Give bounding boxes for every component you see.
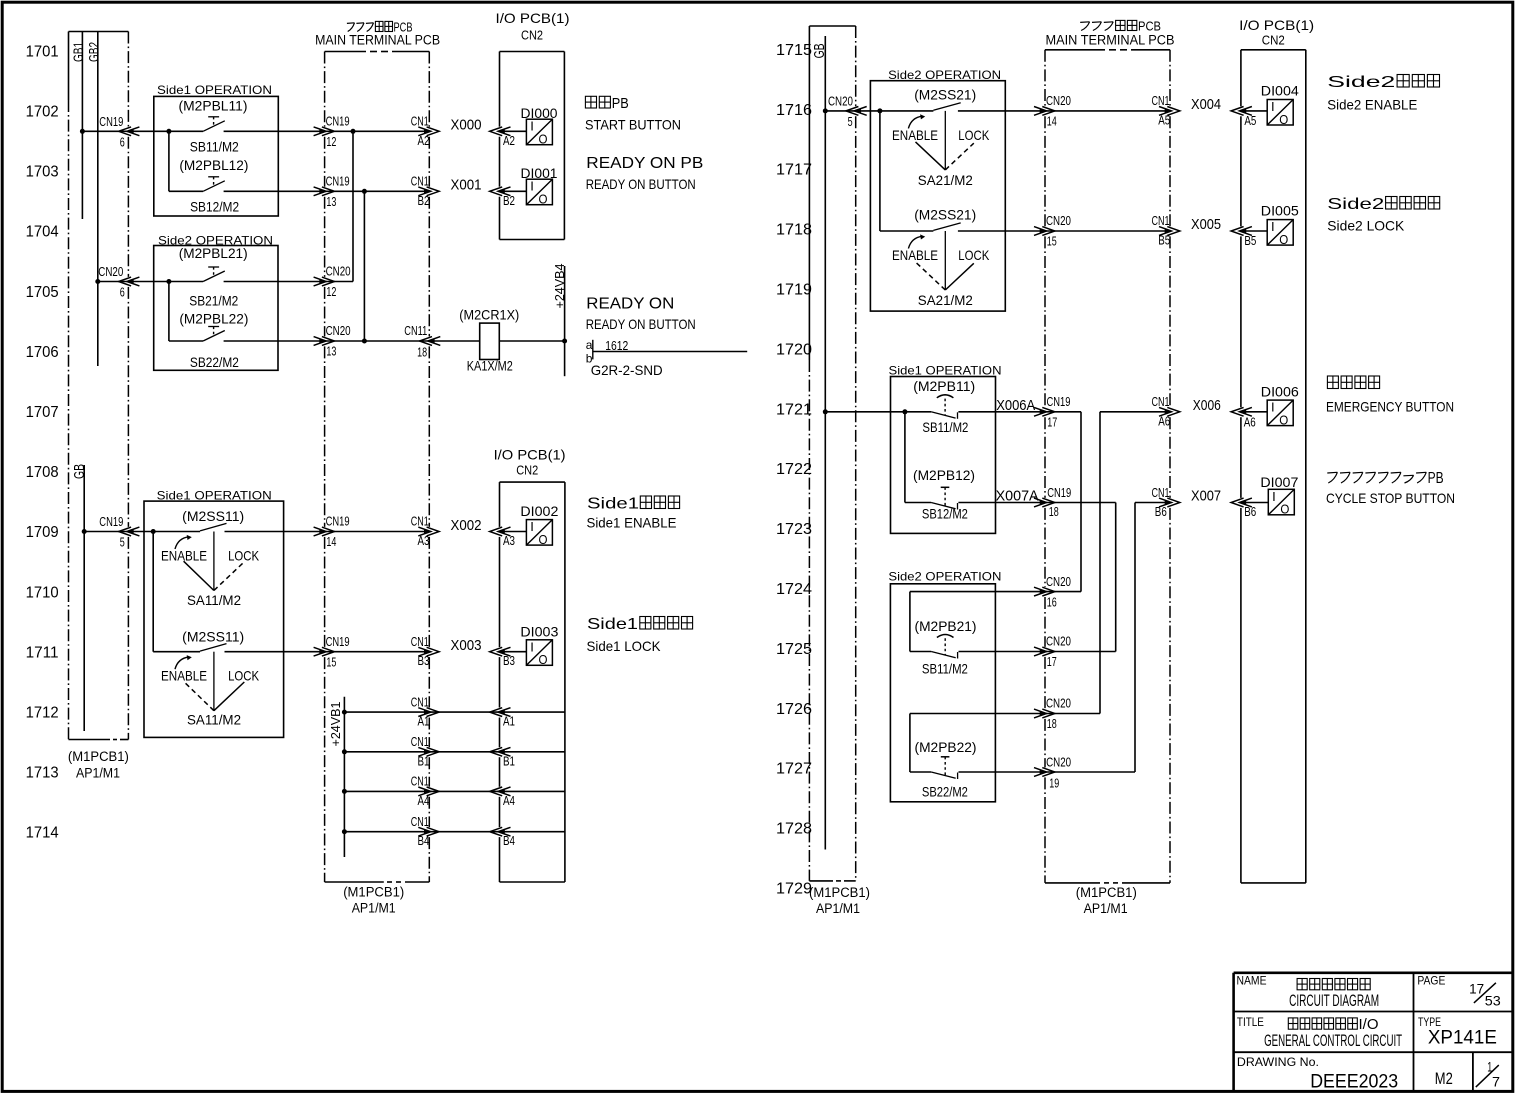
connector CN2 pin A4 (I/O edge)	[498, 787, 511, 796]
svg-text:DI005: DI005	[1261, 203, 1299, 219]
svg-text:(M1PCB1): (M1PCB1)	[68, 749, 129, 764]
svg-text:1729: 1729	[776, 881, 812, 898]
wire A1 inside I/O pcb	[504, 711, 565, 713]
svg-text:5: 5	[848, 114, 853, 129]
svg-text:AP1/M1: AP1/M1	[76, 765, 120, 780]
MAIN TERMINAL PCB box (left)	[325, 51, 366, 53]
svg-text:(M2PBL11): (M2PBL11)	[179, 98, 248, 114]
I/O PCB(1) CN2 box upper	[500, 51, 565, 53]
label メイン中継PCB	[347, 23, 355, 32]
wire row 1709 GB to selector	[84, 531, 200, 533]
svg-text:1720: 1720	[776, 341, 812, 358]
svg-text:TITLE: TITLE	[1237, 1015, 1264, 1029]
svg-text:GENERAL CONTROL CIRCUIT: GENERAL CONTROL CIRCUIT	[1264, 1031, 1402, 1050]
svg-text:Side2: Side2	[1327, 196, 1384, 213]
svg-text:Side1 ENABLE: Side1 ENABLE	[587, 515, 677, 531]
svg-text:14: 14	[326, 534, 336, 549]
svg-text:1703: 1703	[26, 164, 59, 181]
svg-text:CN1: CN1	[411, 114, 429, 129]
connector CN1 pin B1	[418, 747, 431, 756]
svg-text:B6: B6	[1244, 504, 1256, 519]
connector CN1 pin B4	[418, 827, 431, 836]
svg-text:M2: M2	[1435, 1069, 1453, 1088]
svg-text:I/O PCB(1): I/O PCB(1)	[496, 10, 570, 26]
connector CN19 pin 6 (left PCB edge)	[127, 127, 139, 136]
svg-text:1707: 1707	[26, 404, 59, 421]
svg-text:(M1PCB1): (M1PCB1)	[809, 885, 870, 900]
svg-text:I/O PCB(1): I/O PCB(1)	[494, 447, 566, 463]
svg-text:CN19: CN19	[1047, 485, 1071, 500]
svg-text:1715: 1715	[776, 42, 812, 59]
svg-text:A4: A4	[418, 793, 430, 808]
svg-text:Side1: Side1	[587, 616, 638, 633]
svg-text:CN20: CN20	[326, 323, 351, 338]
svg-text:1705: 1705	[26, 284, 59, 301]
svg-text:CN1: CN1	[411, 174, 429, 189]
svg-text:1704: 1704	[26, 224, 59, 241]
connector CN19 pin 14	[314, 527, 327, 536]
svg-text:CN19: CN19	[326, 114, 350, 129]
svg-text:A3: A3	[418, 533, 430, 548]
svg-text:SB22/M2: SB22/M2	[190, 354, 239, 370]
bus wire 12 vertical	[352, 131, 354, 281]
svg-text:(M2SS21): (M2SS21)	[914, 207, 976, 223]
wire selector to CN20-14	[958, 110, 1045, 112]
wire row 1725 left segment	[910, 651, 931, 653]
wire B4 inside I/O pcb	[504, 831, 565, 833]
svg-text:GB1: GB1	[70, 42, 86, 62]
wire row 1702 GB1 to switch SB11	[82, 130, 203, 132]
svg-text:1710: 1710	[26, 584, 59, 601]
svg-text:DI002: DI002	[520, 503, 558, 519]
svg-text:B3: B3	[503, 653, 515, 668]
connector CN1 pin A3	[418, 527, 431, 536]
svg-text:1723: 1723	[776, 521, 812, 538]
svg-text:19: 19	[1049, 776, 1059, 791]
svg-text:+24VB4: +24VB4	[552, 264, 567, 309]
svg-text:A2: A2	[418, 133, 430, 148]
svg-text:O: O	[1280, 502, 1289, 517]
svg-text:CN20: CN20	[828, 93, 853, 108]
wire row 1702 inside terminal box	[325, 130, 430, 132]
connector CN1 pin A2	[418, 127, 431, 136]
svg-text:DI007: DI007	[1260, 474, 1298, 490]
svg-text:GB: GB	[71, 464, 88, 479]
connector CN11 pin 18	[428, 337, 441, 346]
svg-text:A6: A6	[1244, 414, 1256, 429]
Side2 OPERATION pushbutton box right	[890, 584, 995, 802]
connector CN2 pin A6 (I/O edge)	[1239, 407, 1252, 416]
svg-text:15: 15	[1047, 234, 1057, 249]
svg-text:1724: 1724	[776, 581, 812, 598]
connector CN20 pin 15	[1034, 227, 1047, 236]
svg-text:CIRCUIT DIAGRAM: CIRCUIT DIAGRAM	[1289, 991, 1379, 1010]
svg-text:CN1: CN1	[411, 634, 429, 649]
svg-text:CN19: CN19	[1047, 394, 1071, 409]
svg-text:CN19: CN19	[326, 634, 350, 649]
title 総合制御回路I/O	[1288, 1018, 1298, 1029]
svg-text:READY ON PB: READY ON PB	[586, 155, 703, 172]
svg-text:SA11/M2: SA11/M2	[187, 592, 241, 608]
svg-text:CN20: CN20	[326, 264, 351, 279]
svg-text:1722: 1722	[776, 461, 812, 478]
wire selector to CN20-15	[958, 230, 1045, 232]
wire bus v3 to CN1 A6	[1100, 411, 1170, 413]
connector CN20 pin 19	[1034, 768, 1047, 777]
svg-text:I: I	[1272, 489, 1276, 504]
svg-text:Side1 LOCK: Side1 LOCK	[587, 638, 662, 654]
svg-text:B1: B1	[418, 753, 430, 768]
title 電気回路線図	[1297, 979, 1307, 990]
connector CN20 pin 5	[854, 107, 867, 116]
svg-text:18: 18	[1049, 504, 1059, 519]
wire CN1 B4 to I/O	[429, 831, 499, 833]
svg-text:6: 6	[120, 134, 125, 149]
svg-text:CN2: CN2	[521, 28, 543, 43]
bus GB2 vertical wire	[97, 32, 99, 367]
wire branch selector 1716 to 1718	[879, 111, 881, 231]
wire +24VB1 to CN1 B4	[344, 831, 429, 833]
wire branch SB11 to SB12	[168, 131, 170, 191]
svg-text:CYCLE STOP BUTTON: CYCLE STOP BUTTON	[1326, 490, 1455, 506]
wire row 1703 inside terminal box	[325, 190, 430, 192]
svg-text:GB2: GB2	[85, 42, 101, 62]
wire CN1 A1 to I/O	[429, 711, 499, 713]
Side1 OPERATION box upper	[154, 96, 278, 216]
svg-text:CN1: CN1	[1152, 394, 1170, 409]
svg-text:1716: 1716	[776, 102, 812, 119]
connector CN2 pin A3 (I/O edge)	[498, 527, 511, 536]
svg-text:KA1X/M2: KA1X/M2	[467, 358, 513, 374]
svg-text:13: 13	[326, 194, 336, 209]
svg-text:CN11: CN11	[404, 323, 427, 338]
svg-text:17: 17	[1047, 654, 1057, 669]
bus wire 13 vertical	[363, 191, 365, 341]
svg-text:1719: 1719	[776, 282, 812, 299]
node +24VB1 junction B4	[342, 829, 347, 834]
svg-text:LOCK: LOCK	[958, 247, 990, 263]
svg-text:1701: 1701	[26, 43, 59, 60]
wire branch SB11 to SB12 right	[904, 412, 906, 503]
relay coil KA1X/M2 (M2CR1X)	[480, 323, 500, 359]
pushbutton SB22/M2 (M2PBL22)	[208, 326, 219, 328]
wire branch down to SB11 (M2PB21)	[909, 592, 911, 652]
text 非常停止	[1327, 376, 1338, 389]
svg-text:X004: X004	[1191, 96, 1221, 113]
svg-text:CN20: CN20	[1046, 634, 1071, 649]
svg-text:AP1/M1: AP1/M1	[1084, 901, 1128, 916]
svg-text:(M1PCB1): (M1PCB1)	[343, 885, 404, 900]
connector CN20 pin 6	[127, 277, 139, 286]
svg-text:1702: 1702	[26, 104, 59, 121]
svg-text:Side2 ENABLE: Side2 ENABLE	[1327, 97, 1417, 113]
svg-text:AP1/M1: AP1/M1	[816, 901, 860, 916]
node junction bus 12	[351, 129, 356, 134]
svg-text:(M2PB21): (M2PB21)	[915, 618, 977, 634]
svg-text:SB21/M2: SB21/M2	[189, 293, 238, 309]
node GB junction row 1716	[823, 108, 828, 113]
connector CN2 pin A2 (I/O edge)	[498, 127, 511, 136]
I/O PCB(1) CN2 box lower	[500, 481, 565, 483]
svg-text:1718: 1718	[776, 222, 812, 239]
svg-text:DI003: DI003	[520, 623, 558, 639]
svg-text:1714: 1714	[26, 825, 59, 842]
svg-text:SA21/M2: SA21/M2	[918, 292, 973, 308]
svg-text:LOCK: LOCK	[228, 547, 260, 563]
wire CN19-17 to bus v1	[1045, 411, 1081, 413]
svg-text:Side1 OPERATION: Side1 OPERATION	[157, 489, 272, 503]
connector CN19 pin 12	[314, 127, 327, 136]
svg-text:1708: 1708	[26, 464, 59, 481]
wire CN11 to relay coil	[429, 340, 479, 342]
wire into DI004	[1245, 110, 1267, 112]
connector CN19 pin 15	[314, 647, 327, 656]
svg-text:I/O PCB(1): I/O PCB(1)	[1239, 17, 1314, 33]
svg-text:CN19: CN19	[99, 114, 123, 129]
wire into DI007	[1245, 502, 1268, 504]
svg-text:CN20: CN20	[1046, 93, 1071, 108]
wire into DI002	[504, 531, 526, 533]
svg-text:1727: 1727	[776, 761, 812, 778]
connector CN19 pin 13	[314, 187, 327, 196]
svg-text:5: 5	[120, 535, 125, 550]
Side2 OPERATION selector box right	[870, 81, 1005, 311]
wire row 1716 inside terminal box	[1045, 110, 1170, 112]
svg-text:O: O	[539, 652, 548, 667]
svg-text:CN1: CN1	[411, 514, 429, 529]
node junction bus 13 row 1706	[362, 339, 367, 344]
svg-text:PB: PB	[1428, 470, 1444, 487]
svg-text:Side2 OPERATION: Side2 OPERATION	[888, 68, 1001, 82]
svg-text:CN1: CN1	[411, 774, 429, 789]
svg-text:(M2SS11): (M2SS11)	[182, 629, 244, 645]
svg-text:READY ON: READY ON	[586, 296, 674, 313]
svg-text:CN1: CN1	[1152, 485, 1170, 500]
svg-text:1721: 1721	[776, 401, 812, 418]
svg-text:B1: B1	[503, 753, 515, 768]
pushbutton SB11/M2 (M2PBL11)	[208, 116, 219, 118]
svg-text:B3: B3	[418, 653, 430, 668]
svg-text:X007: X007	[1191, 487, 1221, 504]
svg-text:A2: A2	[503, 133, 515, 148]
svg-text:AP1/M1: AP1/M1	[352, 901, 396, 916]
connector CN1 pin A6	[1159, 407, 1172, 416]
I/O PCB(1) CN2 box right	[1241, 49, 1306, 51]
connector CN1 pin A5	[1159, 107, 1172, 116]
node GB2 junction row 1705	[95, 279, 100, 284]
svg-text:(M2CR1X): (M2CR1X)	[459, 307, 519, 323]
svg-text:DI006: DI006	[1261, 383, 1299, 399]
connector CN2 pin A5 (I/O edge)	[1239, 107, 1252, 116]
svg-text:12: 12	[326, 284, 336, 299]
svg-text:A5: A5	[1158, 112, 1170, 127]
MAIN TERMINAL PCB box (right)	[1045, 49, 1105, 51]
connector CN1 pin B2	[418, 187, 431, 196]
svg-text:B2: B2	[418, 193, 430, 208]
connector CN2 pin B2 (I/O edge)	[498, 187, 511, 196]
wire row 1727 left segment	[910, 771, 931, 773]
svg-text:CN1: CN1	[1152, 93, 1170, 108]
svg-text:GB: GB	[811, 43, 828, 58]
svg-text:O: O	[539, 192, 548, 207]
wire relay to +24VB4	[499, 340, 564, 342]
svg-text:ENABLE: ENABLE	[892, 247, 938, 263]
connector CN19 pin 17	[1034, 407, 1047, 416]
svg-text:14: 14	[1047, 114, 1057, 129]
svg-text:CN20: CN20	[1046, 754, 1071, 769]
node GB junction row 1721	[823, 409, 828, 414]
node branch junction in Side1 box	[166, 129, 171, 134]
wire into DI005	[1245, 230, 1267, 232]
svg-text:A5: A5	[1244, 113, 1256, 128]
svg-text:A6: A6	[1158, 413, 1170, 428]
connector CN1 pin B6	[1159, 498, 1172, 507]
wire row 1706 inside terminal box	[325, 340, 430, 342]
Side2 OPERATION box (left)	[154, 246, 278, 371]
connector CN1 pin A4	[418, 787, 431, 796]
svg-text:(M2PB22): (M2PB22)	[915, 739, 977, 755]
text サイクルストップPB	[1327, 472, 1337, 483]
svg-text:Side2: Side2	[1327, 74, 1395, 91]
connector CN20 pin 12	[314, 277, 327, 286]
svg-text:READY ON BUTTON: READY ON BUTTON	[586, 176, 696, 192]
svg-text:CN1: CN1	[411, 734, 429, 749]
svg-text:B2: B2	[503, 193, 515, 208]
svg-text:CN20: CN20	[1046, 696, 1071, 711]
svg-text:Side2 OPERATION: Side2 OPERATION	[888, 570, 1001, 584]
node junction bus 13	[362, 189, 367, 194]
svg-text:X003: X003	[451, 637, 482, 654]
svg-text:(M2PBL12): (M2PBL12)	[179, 157, 248, 173]
svg-text:6: 6	[120, 285, 125, 300]
connector CN20 pin 16	[1034, 587, 1047, 596]
connector CN20 pin 14	[1034, 107, 1047, 116]
svg-text:A1: A1	[503, 714, 515, 729]
svg-text:(M2SS21): (M2SS21)	[914, 87, 976, 103]
bus wire v2 vertical	[1115, 503, 1117, 652]
svg-text:START BUTTON: START BUTTON	[585, 117, 681, 133]
svg-text:DEEE2023: DEEE2023	[1310, 1072, 1398, 1093]
svg-text:Side2 LOCK: Side2 LOCK	[1327, 217, 1405, 233]
wire SB22 to CN20-19	[959, 771, 1136, 773]
svg-text:LOCK: LOCK	[228, 668, 260, 684]
connector CN2 pin B6 (I/O edge)	[1239, 498, 1252, 507]
bus wire v3 vertical	[1099, 412, 1101, 714]
svg-text:I: I	[530, 119, 534, 134]
svg-text:B6: B6	[1155, 504, 1167, 519]
svg-text:B4: B4	[418, 833, 430, 848]
svg-text:EMERGENCY BUTTON: EMERGENCY BUTTON	[1326, 398, 1454, 414]
svg-text:LOCK: LOCK	[958, 127, 990, 143]
svg-text:Side1 OPERATION: Side1 OPERATION	[157, 83, 272, 97]
wire branch down to SB22 (M2PB22)	[909, 714, 911, 773]
pushbutton SB12/M2 (M2PBL12)	[208, 176, 219, 178]
wire row 1705 to bus 12	[325, 281, 353, 283]
svg-text:(M2SS11): (M2SS11)	[182, 508, 244, 524]
right PCB box (M1PCB1) around GB bus	[809, 25, 855, 27]
svg-text:ENABLE: ENABLE	[161, 547, 207, 563]
svg-text:A1: A1	[418, 714, 430, 729]
svg-text:a: a	[586, 338, 593, 352]
svg-text:18: 18	[1047, 716, 1057, 731]
wire row 1709 inside terminal box	[325, 531, 430, 533]
wire CN1 B1 to I/O	[429, 751, 499, 753]
svg-text:CN19: CN19	[99, 514, 123, 529]
wire SB22 to CN20-13	[224, 340, 325, 342]
connector CN2 pin B1 (I/O edge)	[498, 747, 511, 756]
node branch junction Side2 selector	[877, 108, 882, 113]
svg-text:I: I	[1271, 400, 1275, 415]
node GB junction row 1709	[82, 529, 87, 534]
connector CN20 pin 17	[1034, 647, 1047, 656]
node junction +24VB4	[562, 339, 567, 344]
wire row 1718 inside terminal box	[1045, 230, 1170, 232]
power rail +24VB4	[564, 266, 566, 376]
svg-text:PAGE: PAGE	[1417, 974, 1445, 988]
wire row 1716 GB to selector	[825, 110, 933, 112]
svg-text:SB22/M2: SB22/M2	[922, 784, 968, 800]
svg-text:CN1: CN1	[411, 814, 429, 829]
svg-text:18: 18	[417, 345, 427, 360]
bus GB vertical wire (lower)	[83, 465, 85, 731]
svg-text:(M1PCB1): (M1PCB1)	[1076, 885, 1137, 900]
svg-text:A3: A3	[503, 533, 515, 548]
node branch junction selector	[151, 529, 156, 534]
connector CN20 pin 18	[1034, 709, 1047, 718]
svg-text:1713: 1713	[26, 765, 59, 782]
svg-text:SA21/M2: SA21/M2	[918, 172, 973, 188]
svg-text:CN20: CN20	[1046, 213, 1071, 228]
left PCB box (M1PCB1) around GB buses	[69, 31, 129, 33]
svg-text:I: I	[1271, 219, 1275, 234]
wire bus v4 to CN1 B6	[1135, 502, 1170, 504]
Side1 OPERATION selector box	[144, 501, 284, 737]
svg-text:13: 13	[326, 344, 336, 359]
svg-text:G2R-2-SND: G2R-2-SND	[591, 362, 663, 378]
connector CN2 pin B5 (I/O edge)	[1239, 227, 1252, 236]
svg-text:I: I	[530, 179, 534, 194]
svg-text:X000: X000	[451, 117, 482, 134]
svg-text:X006A: X006A	[996, 397, 1035, 414]
node GB1 junction row 1702	[80, 129, 85, 134]
svg-text:SB12/M2: SB12/M2	[922, 506, 968, 522]
svg-text:17: 17	[1469, 982, 1484, 997]
svg-text:O: O	[1279, 412, 1288, 427]
pushbutton SB21/M2 (M2PBL21)	[208, 266, 219, 268]
svg-text:B5: B5	[1244, 233, 1256, 248]
connector CN2 pin B4 (I/O edge)	[498, 827, 511, 836]
svg-text:1717: 1717	[776, 162, 812, 179]
svg-text:CN2: CN2	[516, 463, 538, 478]
wire A4 inside I/O pcb	[504, 790, 565, 792]
wire +24VB1 to CN1 A4	[344, 790, 429, 792]
svg-text:(M2PB12): (M2PB12)	[913, 467, 975, 483]
svg-text:1726: 1726	[776, 701, 812, 718]
wire into DI001	[504, 190, 526, 192]
svg-text:1706: 1706	[26, 344, 59, 361]
svg-text:SB11/M2: SB11/M2	[922, 419, 968, 435]
svg-text:16: 16	[1047, 594, 1057, 609]
svg-text:X005: X005	[1191, 216, 1221, 233]
wire SB12 to CN19-13	[224, 190, 325, 192]
wire CN20-16 row 1724	[910, 591, 1081, 593]
svg-text:ENABLE: ENABLE	[892, 127, 938, 143]
node branch junction Side1 PB box	[902, 409, 907, 414]
node +24VB1 junction A4	[342, 789, 347, 794]
svg-text:DRAWING No.: DRAWING No.	[1237, 1055, 1319, 1069]
svg-text:53: 53	[1485, 993, 1501, 1008]
svg-text:I: I	[1271, 99, 1275, 114]
